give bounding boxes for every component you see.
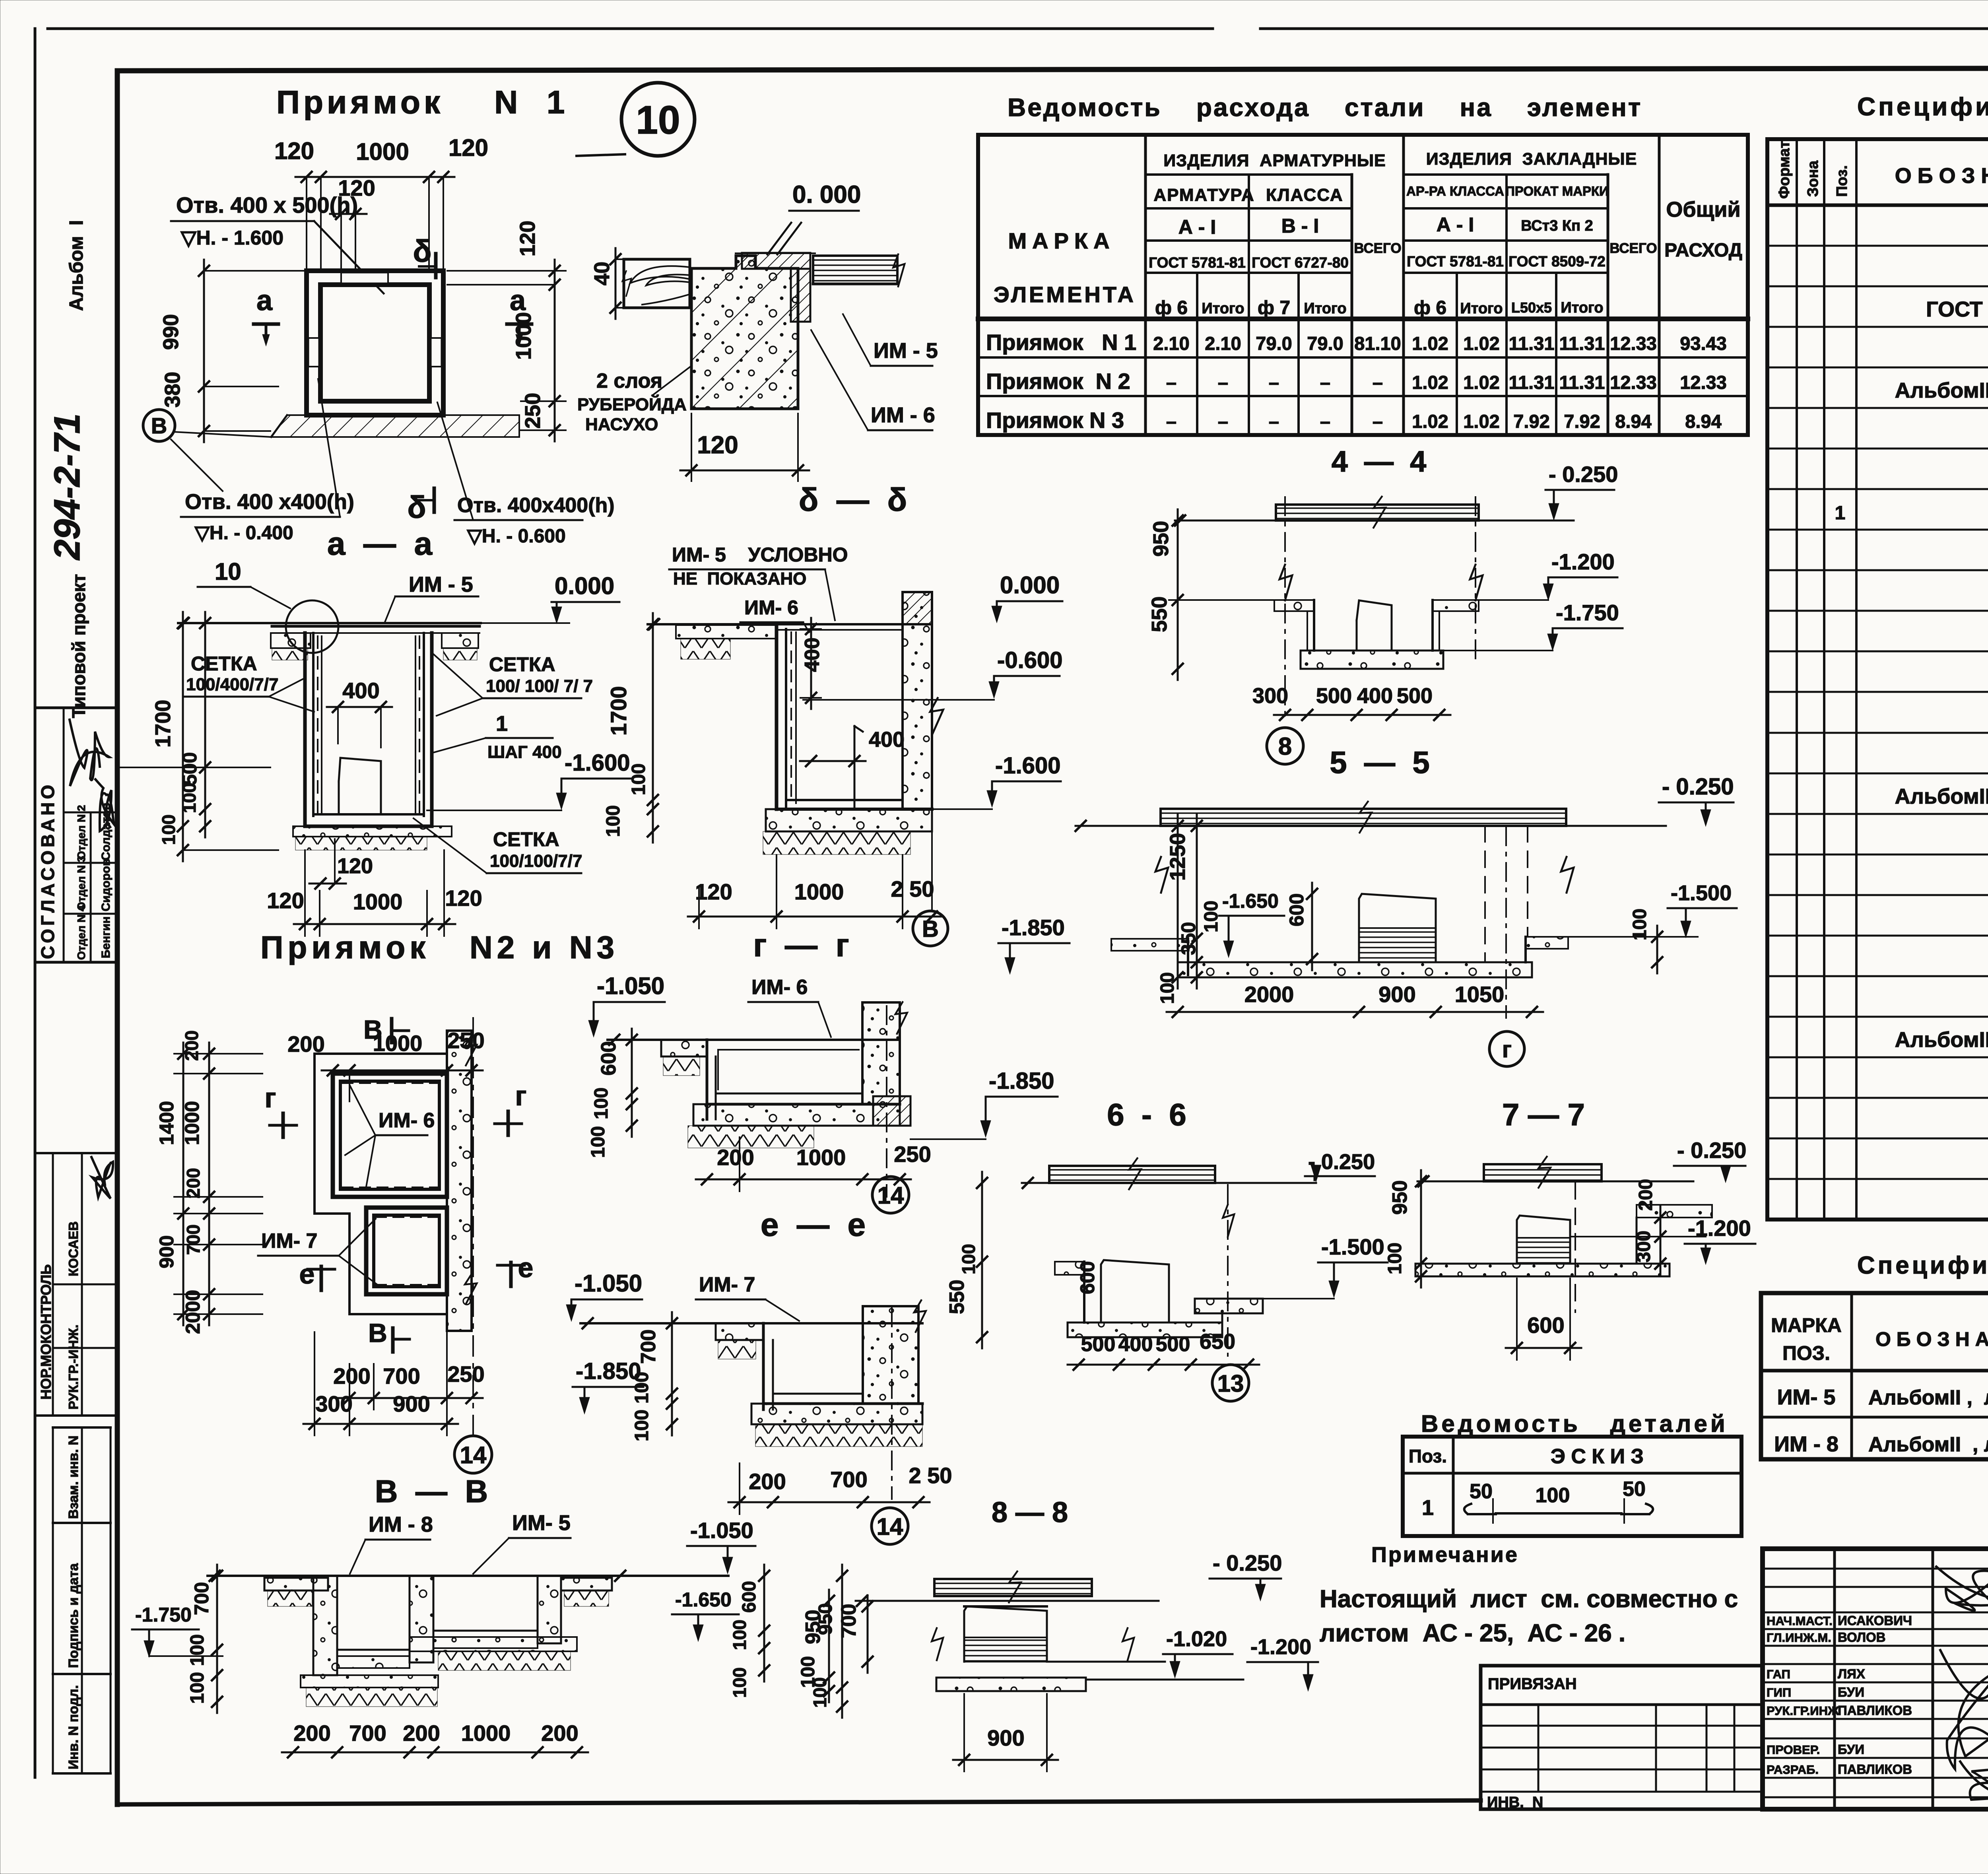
svg-text:11.31: 11.31 bbox=[1559, 372, 1605, 393]
svg-text:500: 500 bbox=[1397, 684, 1433, 708]
plan N1 footing hatched bbox=[271, 415, 519, 437]
title block left grid bbox=[1763, 1549, 1988, 1809]
svg-text:900: 900 bbox=[1378, 982, 1415, 1007]
section а-а mesh bar detail bbox=[339, 758, 381, 813]
svg-text:НЕ ПОКАЗАНО: НЕ ПОКАЗАНО bbox=[673, 569, 806, 588]
svg-text:13: 13 bbox=[1217, 1370, 1244, 1397]
svg-text:Итого: Итого bbox=[1561, 299, 1603, 316]
section 5-5 level -0.250 bbox=[1659, 774, 1734, 826]
svg-text:Типовой проект: Типовой проект bbox=[68, 574, 89, 718]
svg-text:δ: δ bbox=[407, 489, 426, 524]
section б-б footing bbox=[763, 809, 932, 854]
detail 10 floor slab striped bbox=[813, 254, 905, 287]
svg-text:ф 6: ф 6 bbox=[1155, 297, 1188, 318]
svg-text:В: В bbox=[922, 916, 939, 942]
svg-text:700: 700 bbox=[183, 1224, 204, 1255]
svg-text:12.33: 12.33 bbox=[1610, 372, 1657, 393]
svg-text:6 - 6: 6 - 6 bbox=[1107, 1097, 1186, 1132]
svg-text:2.10: 2.10 bbox=[1205, 333, 1241, 354]
plan N1 marker В circle bbox=[143, 410, 271, 491]
svg-text:Отв. 400 х400(h): Отв. 400 х400(h) bbox=[185, 490, 354, 514]
svg-text:600: 600 bbox=[1527, 1313, 1564, 1338]
section б-б right concrete wall bbox=[903, 592, 945, 809]
section 8-8 left dims 950 700 100 100 bbox=[798, 1590, 873, 1702]
section 7-7 level -1.200 bbox=[1685, 1216, 1755, 1264]
svg-text:650: 650 bbox=[1200, 1330, 1235, 1354]
svg-text:120: 120 bbox=[448, 134, 488, 161]
svg-text:200: 200 bbox=[183, 1168, 204, 1198]
svg-text:а: а bbox=[510, 285, 526, 317]
drawing title Приямок N 1 bbox=[276, 84, 569, 120]
section а-а level 0.000 bbox=[551, 573, 619, 623]
svg-text:Ведомость расхода стали: Ведомость расхода стали на элемент bbox=[1008, 93, 1642, 122]
svg-text:-1.750: -1.750 bbox=[135, 1604, 192, 1626]
section 6-6 footing bbox=[1068, 1299, 1263, 1337]
svg-text:100: 100 bbox=[1629, 909, 1650, 940]
plan N1 section mark b bottom bbox=[407, 488, 434, 524]
section 6-6 level -0.250 ref bbox=[1305, 1150, 1375, 1182]
sheet thin border left bbox=[34, 29, 37, 1777]
detail 10 dim 120 bbox=[680, 414, 809, 481]
section 7-7 right dims 200 300 bbox=[1570, 1179, 1706, 1275]
section б-б walls bbox=[777, 624, 932, 809]
svg-text:8.94: 8.94 bbox=[1615, 411, 1651, 432]
svg-text:-1.050: -1.050 bbox=[690, 1518, 753, 1543]
plan N23 lower pit bbox=[366, 1208, 447, 1294]
plan N23 bottom dims 200 700 250 / 300 900 bbox=[303, 1332, 485, 1435]
svg-text:РАЗРАБ.: РАЗРАБ. bbox=[1767, 1763, 1819, 1777]
svg-text:МАРКА: МАРКА bbox=[1771, 1314, 1842, 1336]
svg-text:Приямок N 1: Приямок N 1 bbox=[276, 84, 569, 120]
svg-text:294-2-71: 294-2-71 bbox=[47, 414, 87, 561]
svg-text:ПАВЛИКОВ: ПАВЛИКОВ bbox=[1838, 1703, 1912, 1718]
section В-В ground line bbox=[208, 1571, 728, 1581]
svg-text:120: 120 bbox=[337, 854, 373, 878]
svg-text:–: – bbox=[1320, 372, 1330, 393]
svg-text:ИМ - 5: ИМ - 5 bbox=[409, 573, 473, 596]
section 6-6 walls bbox=[1055, 1260, 1169, 1322]
section 5-5 top slab bbox=[1076, 800, 1666, 835]
svg-text:▽Н. - 0.400: ▽Н. - 0.400 bbox=[194, 522, 293, 544]
svg-text:0. 000: 0. 000 bbox=[792, 181, 861, 208]
svg-text:δ: δ bbox=[413, 233, 431, 268]
stamp Взам инв / Подпись и дата / Инв N подл bbox=[53, 1427, 111, 1773]
svg-text:79.0: 79.0 bbox=[1307, 333, 1343, 354]
section г-г level -1.850 bbox=[911, 1068, 1058, 1139]
svg-text:100: 100 bbox=[1536, 1484, 1570, 1507]
svg-text:250: 250 bbox=[521, 393, 545, 429]
section В-В walls bbox=[313, 1576, 561, 1675]
svg-text:Итого: Итого bbox=[1460, 300, 1503, 317]
spec table grid bbox=[1767, 139, 1988, 1220]
svg-text:950: 950 bbox=[802, 1610, 825, 1644]
svg-text:120: 120 bbox=[274, 138, 314, 164]
svg-text:ИМ- 6: ИМ- 6 bbox=[744, 596, 798, 619]
svg-text:Итого: Итого bbox=[1202, 300, 1244, 317]
section 7-7 right flange bbox=[1637, 1205, 1712, 1264]
svg-text:11.31: 11.31 bbox=[1559, 333, 1605, 354]
svg-text:- 0.250: - 0.250 bbox=[1677, 1138, 1746, 1163]
section 8-8 inner box bbox=[964, 1606, 1047, 1662]
svg-text:Поз.: Поз. bbox=[1834, 165, 1850, 197]
section 4-4 footing bbox=[1301, 651, 1443, 669]
section В-В right slab and hatch bbox=[561, 1578, 612, 1606]
svg-text:В: В bbox=[151, 413, 167, 438]
detail 10 steel angle IM-5 hatched bbox=[742, 253, 810, 322]
svg-text:100: 100 bbox=[1384, 1243, 1406, 1274]
section б-б bottom dims 120 1000 250 bbox=[688, 855, 943, 928]
svg-text:120: 120 bbox=[516, 221, 540, 256]
svg-text:1.02: 1.02 bbox=[1412, 333, 1448, 354]
svg-text:600: 600 bbox=[597, 1041, 620, 1076]
section б-б level -1.600 bbox=[932, 753, 1061, 809]
svg-text:200: 200 bbox=[293, 1721, 330, 1746]
svg-text:-1.500: -1.500 bbox=[1321, 1234, 1384, 1259]
svg-text:700: 700 bbox=[830, 1467, 867, 1492]
plan N1 section mark b top bbox=[413, 233, 436, 278]
section б-б level -0.600 bbox=[803, 647, 1062, 700]
svg-text:- 0.250: - 0.250 bbox=[1549, 462, 1618, 487]
table1 data rows bbox=[986, 330, 1727, 433]
svg-text:10: 10 bbox=[636, 98, 680, 142]
svg-text:100: 100 bbox=[631, 1372, 652, 1404]
svg-text:600: 600 bbox=[1285, 893, 1308, 926]
svg-text:-1.050: -1.050 bbox=[575, 1270, 642, 1297]
table1 verticals bbox=[1197, 135, 1659, 435]
svg-text:Э С К И З: Э С К И З bbox=[1551, 1445, 1644, 1468]
section 5-5 walls flanges bbox=[1111, 937, 1568, 975]
svg-text:81.10: 81.10 bbox=[1354, 333, 1401, 354]
table1 horizontals bbox=[978, 175, 1748, 396]
svg-text:ИНВ. N: ИНВ. N bbox=[1487, 1794, 1543, 1811]
svg-text:-1.200: -1.200 bbox=[1250, 1635, 1311, 1659]
svg-text:50: 50 bbox=[1470, 1480, 1493, 1503]
svg-text:-1.200: -1.200 bbox=[1551, 549, 1615, 574]
table Ведомость расхода стали — title bbox=[1008, 93, 1642, 122]
svg-text:Общий: Общий bbox=[1666, 198, 1740, 221]
svg-text:400: 400 bbox=[869, 728, 905, 752]
section 7-7 level -0.250 bbox=[1674, 1138, 1746, 1183]
detail 10 dim 40 bbox=[590, 248, 622, 319]
svg-text:МАРКА: МАРКА bbox=[1008, 228, 1115, 253]
section б-б left dims 1700 100 100 bbox=[603, 613, 658, 843]
svg-text:ИЗДЕЛИЯ АРМАТУРНЫЕ: ИЗДЕЛИЯ АРМАТУРНЫЕ bbox=[1163, 151, 1386, 170]
plan N23 section marks г bbox=[264, 1080, 526, 1137]
svg-text:ПРИВЯЗАН: ПРИВЯЗАН bbox=[1488, 1675, 1577, 1693]
svg-text:120: 120 bbox=[445, 886, 482, 911]
section а-а ground line bbox=[178, 618, 569, 628]
section е-е title bbox=[761, 1207, 866, 1243]
svg-text:100/100/7/7: 100/100/7/7 bbox=[490, 851, 582, 871]
section 8-8 top slab bbox=[856, 1570, 1159, 1606]
section В-В left dims 700 100 100 bbox=[187, 1565, 222, 1713]
section е-е wall and floor bbox=[763, 1323, 922, 1410]
plan N23 top dims 200 1000 250 bbox=[287, 1028, 484, 1101]
section 7-7 bottom slab bbox=[1415, 1264, 1670, 1276]
svg-text:СЕТКА: СЕТКА bbox=[489, 653, 555, 676]
svg-text:ф 7: ф 7 bbox=[1258, 297, 1290, 318]
svg-text:14: 14 bbox=[877, 1513, 903, 1540]
svg-text:ф 6: ф 6 bbox=[1414, 297, 1446, 318]
svg-text:▽Н. - 0.600: ▽Н. - 0.600 bbox=[466, 526, 566, 547]
section а-а label шаг 400 bbox=[434, 712, 562, 762]
svg-text:Отдел N 2: Отдел N 2 bbox=[75, 805, 87, 860]
section 8-8 levels -1.020 -1.200 bbox=[1163, 1627, 1318, 1691]
section г-г left ledge bbox=[661, 1040, 707, 1076]
svg-text:400: 400 bbox=[801, 637, 824, 672]
svg-text:-1.850: -1.850 bbox=[989, 1068, 1054, 1094]
svg-text:Отв. 400х400(h): Отв. 400х400(h) bbox=[457, 494, 615, 517]
svg-text:120: 120 bbox=[695, 879, 732, 904]
svg-text:100/ 100/ 7/ 7: 100/ 100/ 7/ 7 bbox=[486, 676, 593, 696]
svg-text:200: 200 bbox=[749, 1469, 786, 1494]
svg-text:2 слоя: 2 слоя bbox=[596, 369, 662, 392]
section 7-7 centerline bbox=[1574, 1183, 1576, 1312]
svg-text:ГОСТ 8478 - 66: ГОСТ 8478 - 66 bbox=[1926, 297, 1988, 321]
section б-б bar and dim 400 bbox=[800, 726, 905, 809]
svg-text:Формат: Формат bbox=[1776, 141, 1793, 199]
plan N1 walls bbox=[307, 271, 443, 415]
section 4-4 bottom dims 300 500 400 500 bbox=[1252, 684, 1450, 720]
section а-а bottom dims 120 1000 120 bbox=[267, 839, 482, 936]
svg-text:-1.050: -1.050 bbox=[597, 973, 664, 999]
note Примечание bbox=[1320, 1543, 1738, 1647]
detail 10 concrete block bbox=[691, 256, 798, 409]
section В-В bottom dims 200 700 200 1000 200 bbox=[282, 1721, 588, 1757]
svg-text:900: 900 bbox=[987, 1725, 1024, 1750]
svg-text:ПОЗ.: ПОЗ. bbox=[1782, 1342, 1830, 1364]
section г-г left dims 600 100 100 bbox=[588, 1029, 637, 1158]
svg-text:200: 200 bbox=[1635, 1179, 1656, 1211]
section г-г footing bbox=[688, 1104, 900, 1148]
svg-text:900: 900 bbox=[393, 1391, 430, 1416]
svg-text:г: г bbox=[264, 1082, 276, 1113]
svg-text:8.94: 8.94 bbox=[1685, 411, 1721, 432]
svg-text:100: 100 bbox=[158, 814, 179, 845]
stamp Согласовано bbox=[35, 708, 117, 962]
svg-text:–: – bbox=[1373, 372, 1383, 393]
svg-text:Инв. N подл.: Инв. N подл. bbox=[66, 1685, 81, 1769]
caps table texts bbox=[1771, 1314, 1988, 1458]
section е-е level -1.850 bbox=[573, 1358, 643, 1414]
svg-text:–: – bbox=[1166, 372, 1176, 393]
svg-text:1000: 1000 bbox=[353, 889, 403, 914]
plan N23 label ИМ-7 bbox=[258, 1219, 377, 1284]
svg-text:-1.020: -1.020 bbox=[1166, 1627, 1227, 1651]
svg-text:КОСАЕВ: КОСАЕВ bbox=[66, 1221, 81, 1277]
svg-text:14: 14 bbox=[878, 1182, 904, 1209]
section В-В title bbox=[375, 1474, 488, 1509]
svg-text:ВСЕГО: ВСЕГО bbox=[1354, 241, 1401, 256]
svg-text:Отв. 400 х 500(h): Отв. 400 х 500(h) bbox=[176, 192, 358, 218]
svg-text:Взам. инв. N: Взам. инв. N bbox=[66, 1435, 81, 1519]
section г-г top line bbox=[608, 1035, 900, 1045]
svg-text:В — В: В — В bbox=[375, 1474, 488, 1509]
svg-text:900: 900 bbox=[155, 1235, 178, 1268]
svg-text:ГОСТ 5781-81: ГОСТ 5781-81 bbox=[1407, 253, 1504, 270]
svg-text:а: а bbox=[256, 285, 273, 317]
title block main box bbox=[1763, 1549, 1988, 1809]
svg-text:δ — δ: δ — δ bbox=[799, 482, 907, 518]
svg-text:14: 14 bbox=[460, 1442, 487, 1468]
svg-text:7.92: 7.92 bbox=[1564, 411, 1600, 432]
svg-text:А - I: А - I bbox=[1178, 216, 1216, 238]
svg-text:Альбом I: Альбом I bbox=[66, 220, 87, 311]
section б-б level 0.000 bbox=[992, 572, 1062, 623]
section г-г wall and floor bbox=[707, 1040, 900, 1119]
section г-г title bbox=[753, 927, 849, 963]
stamp Нормоконтроль bbox=[35, 1153, 117, 1416]
svg-text:100: 100 bbox=[958, 1244, 979, 1274]
svg-text:-1.200: -1.200 bbox=[1688, 1216, 1751, 1241]
svg-text:ГАП: ГАП bbox=[1767, 1667, 1790, 1681]
svg-text:100/400/7/7: 100/400/7/7 bbox=[186, 675, 278, 694]
svg-text:400: 400 bbox=[1357, 684, 1393, 708]
section а-а pit walls bbox=[305, 633, 432, 826]
svg-text:–: – bbox=[1269, 411, 1279, 432]
section 5-5 level -1.500 right bbox=[1568, 881, 1737, 973]
drawing title Приямок N2 и N3 bbox=[260, 930, 619, 965]
section 5-5 inner box bbox=[1359, 894, 1436, 962]
section 8-8 bottom dim 900 bbox=[953, 1694, 1058, 1771]
svg-text:100: 100 bbox=[603, 805, 624, 837]
section В-В level -1.050 bbox=[687, 1518, 755, 1574]
svg-text:400: 400 bbox=[342, 678, 379, 703]
section 4-4 levels right -1.200 -1.750 bbox=[1443, 549, 1623, 651]
svg-text:–: – bbox=[1218, 411, 1228, 432]
svg-text:А - I: А - I bbox=[1437, 214, 1474, 236]
svg-text:300: 300 bbox=[1633, 1231, 1654, 1262]
plan N23 building outline bbox=[315, 1054, 447, 1314]
svg-text:Приямок N 2: Приямок N 2 bbox=[986, 369, 1130, 394]
svg-text:РАСХОД: РАСХОД bbox=[1664, 240, 1742, 261]
svg-text:г: г bbox=[515, 1080, 526, 1111]
section 5-5 footing bbox=[1178, 962, 1532, 977]
svg-text:700: 700 bbox=[637, 1329, 660, 1364]
section 7-7 title bbox=[1502, 1097, 1585, 1132]
svg-text:50: 50 bbox=[1623, 1478, 1646, 1501]
svg-text:120: 120 bbox=[267, 888, 304, 913]
svg-text:Ведомость деталей: Ведомость деталей bbox=[1421, 1410, 1728, 1437]
svg-text:а — а: а — а bbox=[327, 526, 433, 562]
svg-text:Бенгин: Бенгин bbox=[99, 917, 113, 958]
section а-а cover slab IM-5 bbox=[272, 626, 480, 633]
svg-text:–: – bbox=[1218, 372, 1228, 393]
section 5-5 centerlines dashed bbox=[1155, 826, 1574, 1018]
svg-text:950: 950 bbox=[1388, 1180, 1411, 1215]
svg-text:ГИП: ГИП bbox=[1767, 1686, 1791, 1699]
svg-text:АльбомII , лист КМИ9: АльбомII , лист КМИ9 bbox=[1868, 1386, 1988, 1409]
svg-text:НОР.МОКОНТРОЛЬ: НОР.МОКОНТРОЛЬ bbox=[38, 1264, 54, 1400]
svg-text:РУБЕРОЙДА: РУБЕРОЙДА bbox=[577, 394, 687, 414]
svg-text:1: 1 bbox=[496, 712, 508, 736]
svg-text:-1.650: -1.650 bbox=[1222, 890, 1279, 912]
svg-text:БУИ: БУИ bbox=[1838, 1685, 1864, 1699]
svg-text:200: 200 bbox=[541, 1721, 578, 1746]
svg-text:г — г: г — г bbox=[753, 927, 849, 963]
svg-text:500: 500 bbox=[1081, 1333, 1116, 1356]
svg-text:ИМ - 5: ИМ - 5 bbox=[874, 339, 938, 363]
svg-text:▽Н. - 1.600: ▽Н. - 1.600 bbox=[180, 227, 283, 249]
svg-text:500: 500 bbox=[1316, 684, 1352, 708]
svg-text:ПРОКАТ МАРКИ: ПРОКАТ МАРКИ bbox=[1505, 184, 1609, 198]
svg-text:2000: 2000 bbox=[1244, 982, 1294, 1007]
detail 10 level 0.000 bbox=[736, 181, 861, 254]
svg-text:0.000: 0.000 bbox=[1000, 572, 1060, 598]
svg-text:100: 100 bbox=[628, 763, 649, 795]
plan N23 left dims bbox=[155, 1030, 262, 1334]
table Ведомость расхода стали — grid bbox=[978, 135, 1748, 435]
svg-text:СОГЛАСОВАНО: СОГЛАСОВАНО bbox=[37, 782, 58, 959]
svg-text:е: е bbox=[299, 1258, 315, 1289]
svg-text:ПАВЛИКОВ: ПАВЛИКОВ bbox=[1838, 1762, 1912, 1777]
detail 10 callout circle bbox=[577, 83, 695, 156]
section е-е left dims 700 100 100 bbox=[631, 1312, 677, 1441]
svg-text:-1.650: -1.650 bbox=[675, 1589, 732, 1611]
title block staff labels bbox=[1767, 1613, 1912, 1777]
svg-text:93.43: 93.43 bbox=[1680, 333, 1727, 354]
details table bbox=[1403, 1437, 1741, 1536]
section 4-4 pit walls with flanges bbox=[1274, 600, 1479, 651]
svg-text:250: 250 bbox=[894, 1142, 931, 1167]
plan N1 labels holes bottom bbox=[181, 379, 615, 547]
section 4-4 marker 8 circle bbox=[1267, 728, 1303, 764]
svg-text:120: 120 bbox=[697, 431, 738, 459]
section г-г level -1.050 and label ИМ-6 bbox=[588, 973, 831, 1037]
plan N23 concrete wall strip bbox=[447, 1031, 479, 1331]
section 5-5 level -1.850 bbox=[998, 915, 1070, 974]
section а-а ground ledges bbox=[271, 633, 478, 660]
svg-text:Приямок N 3: Приямок N 3 bbox=[986, 408, 1124, 433]
section е-е footing bbox=[751, 1404, 922, 1447]
svg-text:ИМ- 6: ИМ- 6 bbox=[379, 1109, 435, 1132]
section а-а under-slab concrete strip bbox=[293, 826, 452, 850]
svg-text:РУК.ГР.-ИНЖ.: РУК.ГР.-ИНЖ. bbox=[66, 1324, 81, 1410]
detail 10 label 2 слоя руберойда насухо bbox=[577, 366, 691, 434]
svg-text:Приямок N2 и N3: Приямок N2 и N3 bbox=[260, 930, 619, 965]
section а-а level -1.600 bbox=[427, 750, 631, 810]
section е-е left ledge bbox=[716, 1323, 763, 1359]
svg-text:700: 700 bbox=[349, 1721, 386, 1746]
svg-text:ВСт3 Кп 2: ВСт3 Кп 2 bbox=[1521, 218, 1593, 234]
svg-text:200: 200 bbox=[717, 1145, 754, 1170]
detail 10 wood block bbox=[622, 259, 690, 308]
svg-text:1050: 1050 bbox=[1455, 982, 1505, 1007]
svg-text:–: – bbox=[1269, 372, 1279, 393]
svg-text:Спецификация на монолитные: Спецификация на монолитные приямки bbox=[1857, 92, 1988, 121]
svg-text:250: 250 bbox=[447, 1361, 484, 1387]
svg-text:ИМ- 5 УСЛОВНО: ИМ- 5 УСЛОВНО bbox=[672, 544, 848, 566]
svg-text:79.0: 79.0 bbox=[1256, 333, 1292, 354]
section е-е right concrete column bbox=[863, 1299, 928, 1499]
section 8-8 break marks bbox=[932, 1628, 1134, 1660]
svg-text:0.000: 0.000 bbox=[555, 573, 614, 599]
svg-text:1: 1 bbox=[1835, 503, 1846, 524]
caps table grid bbox=[1761, 1293, 1988, 1459]
svg-text:200: 200 bbox=[181, 1030, 202, 1061]
svg-text:ИЗДЕЛИЯ ЗАКЛАДНЫЕ: ИЗДЕЛИЯ ЗАКЛАДНЫЕ bbox=[1426, 150, 1637, 169]
section 8-8 level -0.250 bbox=[1209, 1550, 1282, 1601]
section е-е level -1.050 and label ИМ-7 bbox=[566, 1270, 799, 1321]
svg-text:ЭЛЕМЕНТА: ЭЛЕМЕНТА bbox=[994, 282, 1136, 307]
svg-text:1.02: 1.02 bbox=[1412, 411, 1448, 432]
section В-В far right dims 950 100 bbox=[810, 1565, 847, 1718]
svg-text:100: 100 bbox=[187, 1672, 208, 1704]
svg-text:12.33: 12.33 bbox=[1680, 372, 1727, 393]
svg-text:е: е bbox=[518, 1252, 534, 1283]
svg-text:ЛЯХ: ЛЯХ bbox=[1838, 1666, 1865, 1681]
svg-text:О Б О З Н А Ч Е Н И Е: О Б О З Н А Ч Е Н И Е bbox=[1875, 1328, 1988, 1350]
